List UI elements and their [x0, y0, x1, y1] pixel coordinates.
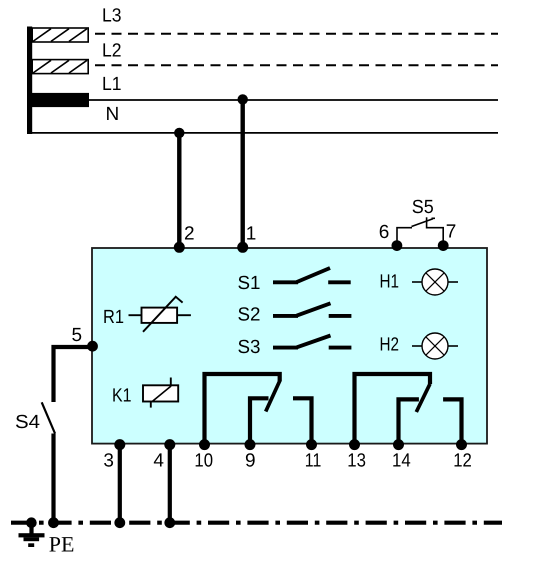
- svg-text:H2: H2: [380, 335, 400, 356]
- fuse symbol L3: [32, 28, 88, 42]
- switch S2: [273, 303, 351, 316]
- pin 10 dot: [199, 439, 210, 450]
- wire L1: [89, 99, 498, 101]
- junction on L1: [238, 94, 248, 104]
- busbar tap L1 (solid block): [27, 93, 89, 107]
- svg-text:12: 12: [453, 450, 472, 471]
- switch S3: [273, 336, 351, 348]
- svg-text:L3: L3: [102, 5, 122, 26]
- svg-text:S3: S3: [238, 337, 261, 358]
- junction pin4/PE: [164, 517, 175, 528]
- svg-text:10: 10: [194, 450, 213, 471]
- svg-text:S4: S4: [15, 412, 40, 433]
- svg-text:K1: K1: [112, 385, 132, 406]
- device body U1 (control unit): [92, 248, 487, 444]
- wire L3 (dashed): [95, 33, 498, 35]
- pin 14 dot: [393, 439, 404, 450]
- relay contact K1.2 common wire (pin 13): [355, 374, 431, 444]
- pin 13 dot: [349, 439, 360, 450]
- wire PE (dash-dot): [11, 521, 502, 525]
- wire pin 4 to PE: [168, 444, 172, 523]
- relay contact K1.1 NO wire (pin 11): [293, 398, 312, 443]
- junction pin3/PE: [114, 517, 125, 528]
- pin 2 dot: [174, 242, 185, 253]
- pin 11 dot: [306, 439, 317, 450]
- fuse symbol L2: [32, 60, 88, 74]
- svg-text:1: 1: [246, 224, 257, 245]
- relay contact K1.2 NO wire (pin 12): [443, 399, 461, 443]
- ground symbol: [19, 523, 45, 547]
- svg-text:R1: R1: [103, 307, 124, 328]
- svg-text:14: 14: [392, 450, 411, 471]
- relay contact K1.1 common wire (pin 10): [205, 374, 280, 444]
- svg-text:11: 11: [305, 450, 322, 471]
- wire N: [29, 132, 498, 134]
- junction on N: [174, 128, 184, 138]
- relay contact K1.2 NC wire (pin 14): [399, 399, 419, 443]
- wire L2 (dashed): [95, 64, 498, 66]
- wire S4 to PE: [51, 434, 55, 523]
- svg-text:S2: S2: [238, 305, 261, 326]
- svg-text:L1: L1: [102, 74, 122, 95]
- pin 12 dot: [456, 439, 467, 450]
- pin 9 dot: [245, 439, 256, 450]
- switch S4 lever: [42, 402, 55, 433]
- wire pin5 to S4: [54, 347, 93, 402]
- junction ground/PE: [26, 517, 37, 528]
- relay contact K1.1 NC wire (pin 9): [250, 398, 269, 443]
- wire L1 to pin 1: [240, 99, 244, 247]
- switch S5: [397, 217, 443, 246]
- S5 lever: [412, 219, 434, 227]
- pin 1 dot: [237, 242, 248, 253]
- pin 6 dot: [392, 240, 403, 251]
- svg-text:S5: S5: [412, 197, 434, 218]
- svg-text:N: N: [106, 104, 120, 125]
- lamp H2: [412, 333, 458, 359]
- svg-text:5: 5: [72, 325, 83, 346]
- relay contact K1.2 lever: [416, 384, 430, 412]
- pin 3 dot: [114, 439, 125, 450]
- svg-text:6: 6: [379, 222, 390, 243]
- S5 contact tick: [426, 217, 428, 228]
- svg-text:9: 9: [245, 450, 256, 471]
- lamp H1: [412, 269, 458, 295]
- svg-text:S1: S1: [238, 273, 261, 294]
- svg-text:13: 13: [347, 450, 366, 471]
- supply busbar: [27, 27, 32, 135]
- svg-text:2: 2: [184, 224, 195, 245]
- junction S4/PE: [48, 517, 59, 528]
- pin 7 dot: [438, 240, 449, 251]
- wire pin 3 to PE: [118, 444, 122, 523]
- svg-text:4: 4: [153, 450, 164, 471]
- svg-text:7: 7: [446, 221, 457, 242]
- pin 5 dot: [87, 341, 98, 352]
- switch S1: [273, 268, 351, 282]
- wire pin6 up: [397, 228, 412, 246]
- wire to pin7: [427, 228, 444, 246]
- svg-text:L2: L2: [102, 41, 122, 62]
- relay contact K1.1 lever: [266, 381, 280, 412]
- svg-text:3: 3: [103, 450, 114, 471]
- svg-text:PE: PE: [49, 532, 75, 557]
- resistor R1 (variable): [129, 296, 191, 332]
- relay coil K1: [143, 378, 178, 408]
- pin 4 dot: [164, 439, 175, 450]
- svg-text:H1: H1: [380, 271, 400, 292]
- S5 lever end tick: [432, 217, 436, 219]
- wire N to pin 2: [177, 133, 181, 247]
